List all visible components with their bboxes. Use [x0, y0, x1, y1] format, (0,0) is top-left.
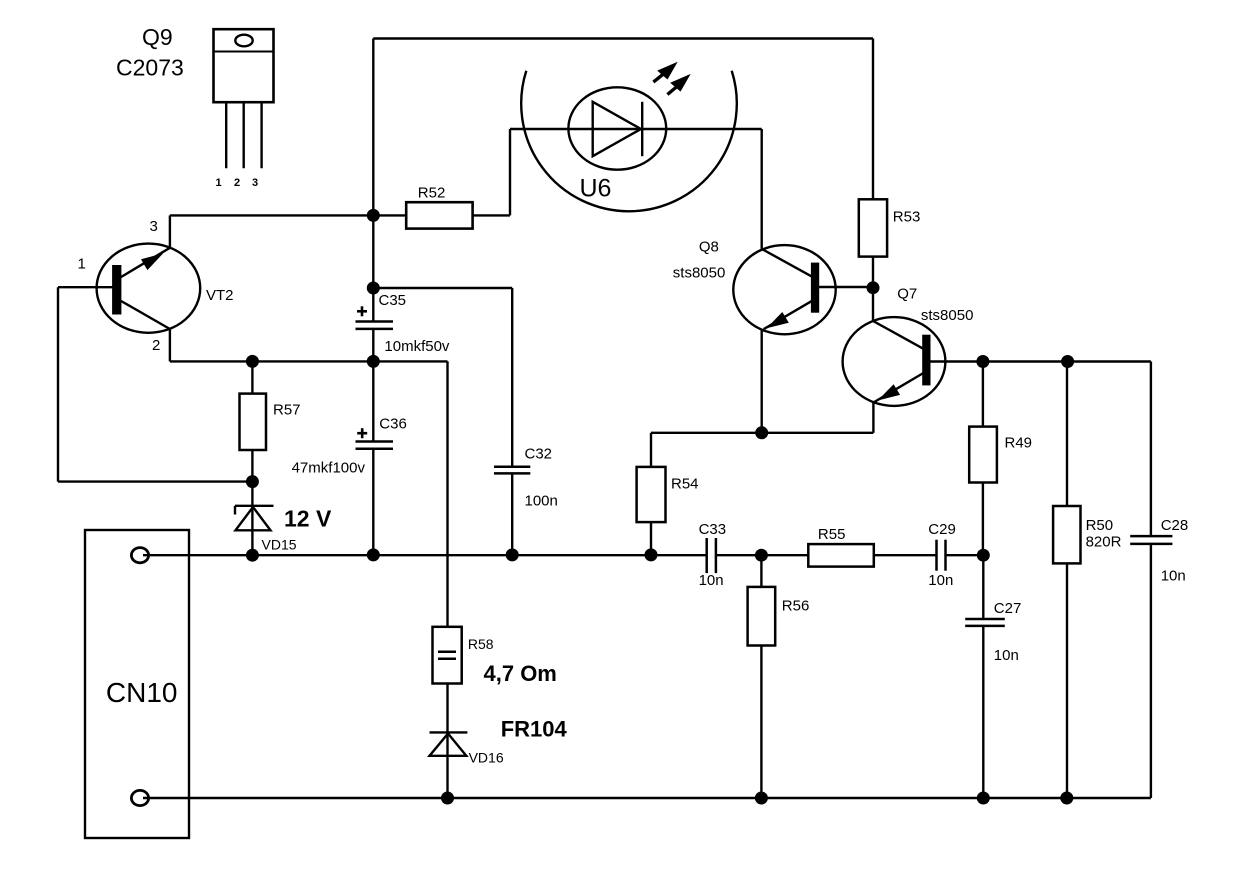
svg-text:1: 1: [78, 256, 86, 273]
junction VT2 emitter / R57 top: [246, 355, 259, 368]
svg-text:12 V: 12 V: [284, 506, 332, 532]
wire VT2 collector to R52: [170, 214, 406, 216]
svg-text:C27: C27: [994, 600, 1022, 617]
wire emitter node horizontal: [651, 432, 873, 434]
wire bottom rail: [143, 797, 1151, 799]
arrow light emission 2: [667, 74, 690, 95]
junction C35 bottom / C36 top: [367, 355, 380, 368]
svg-text:Q9: Q9: [142, 24, 173, 50]
svg-text:R52: R52: [418, 184, 446, 201]
junction R54 bottom / mid rail: [645, 548, 658, 561]
svg-text:3: 3: [252, 177, 258, 189]
svg-text:10mkf50v: 10mkf50v: [384, 338, 450, 355]
junction VD16 anode / bottom rail: [441, 792, 454, 805]
svg-text:R54: R54: [671, 476, 699, 493]
capacitor C27: [982, 555, 984, 619]
wire Q8 emitter: [761, 329, 763, 433]
wire VT2 emitter vertical: [169, 329, 171, 361]
svg-text:U6: U6: [580, 175, 612, 203]
junction Q7 base / R49 top: [976, 355, 989, 368]
junction R56 bottom / bottom rail: [755, 792, 768, 805]
resistor R57: [251, 361, 253, 393]
junction C27 bottom / bottom rail: [977, 792, 990, 805]
wire left loop vertical: [57, 287, 59, 481]
svg-text:10n: 10n: [928, 572, 953, 589]
svg-text:VT2: VT2: [206, 287, 234, 304]
svg-text:10n: 10n: [699, 572, 724, 589]
capacitor C28: [1150, 362, 1152, 537]
svg-text:C33: C33: [699, 521, 727, 538]
svg-text:1: 1: [216, 177, 222, 189]
junction R50 bottom / bottom rail: [1060, 792, 1073, 805]
svg-text:R57: R57: [273, 402, 301, 419]
wire VT2 base: [58, 286, 113, 288]
wire VT2 emitter to R58 column: [170, 360, 448, 362]
svg-text:C36: C36: [379, 416, 407, 433]
wire Q7 emitter: [872, 403, 874, 433]
junction C36 bottom / mid rail: [367, 548, 380, 561]
svg-text:3: 3: [150, 218, 158, 235]
svg-text:100n: 100n: [525, 493, 558, 510]
wire VT2 collector vertical: [169, 215, 171, 247]
wire LED cathode down to Q8 collector: [761, 129, 763, 249]
wire C35 column: [372, 39, 374, 322]
capacitor C29: [935, 540, 938, 571]
svg-text:Q8: Q8: [699, 239, 719, 256]
zener diode VD15 12V: [251, 482, 253, 556]
capacitor C33: [705, 538, 708, 573]
junction C29 / R49 / C27 node: [977, 549, 990, 562]
wire C35 top node to C32 column: [373, 287, 512, 289]
capacitor C32: [494, 466, 530, 469]
connector CN10: [85, 530, 189, 838]
svg-text:C29: C29: [928, 521, 956, 538]
svg-text:10n: 10n: [994, 647, 1019, 664]
svg-text:VD16: VD16: [469, 750, 504, 766]
transistor Q8: [733, 245, 835, 334]
svg-text:R55: R55: [818, 526, 846, 543]
svg-text:C2073: C2073: [116, 55, 184, 81]
capacitor C36 polarized: [356, 440, 394, 443]
svg-text:C35: C35: [379, 292, 407, 309]
wire R58 column from VT2 emitter line: [446, 361, 448, 626]
resistor R52: [406, 202, 472, 228]
capacitor C35 polarized: [356, 320, 394, 323]
label VT2 pins: [78, 218, 234, 354]
svg-text:Q7: Q7: [897, 286, 917, 303]
resistor R56: [760, 555, 762, 587]
diode VD16 FR104: [430, 731, 468, 733]
svg-text:CN10: CN10: [106, 677, 178, 708]
wire Q8 base: [818, 286, 873, 288]
svg-text:R58: R58: [468, 636, 494, 652]
wire mid rail: [143, 554, 707, 556]
svg-text:10n: 10n: [1161, 568, 1186, 585]
svg-text:2: 2: [234, 177, 240, 189]
resistor R54: [637, 467, 666, 522]
junction C35 top / C32 branch: [367, 282, 380, 295]
svg-text:47mkf100v: 47mkf100v: [292, 460, 366, 477]
junction C32 bottom / mid rail: [506, 548, 519, 561]
svg-text:R53: R53: [893, 209, 921, 226]
svg-text:2: 2: [152, 337, 160, 354]
wire Q7 base: [929, 360, 1151, 362]
svg-text:R50: R50: [1086, 517, 1114, 534]
svg-text:sts8050: sts8050: [673, 265, 726, 282]
transistor VT2: [97, 244, 201, 333]
transistor Q9 package TO-220: [214, 29, 274, 168]
junction Q8 base / R53 bottom: [867, 281, 880, 294]
svg-text:C28: C28: [1161, 517, 1189, 534]
opto U6 housing arc: [521, 71, 737, 212]
wire left loop horizontal: [58, 480, 252, 482]
svg-text:820R: 820R: [1086, 533, 1122, 550]
LED diode U6: [568, 87, 666, 169]
svg-text:R56: R56: [782, 598, 810, 615]
label Q9 C2073: [116, 24, 258, 189]
resistor R53: [872, 39, 874, 200]
svg-text:C32: C32: [525, 446, 553, 463]
svg-text:FR104: FR104: [501, 717, 568, 742]
wire R54 top vertical: [650, 433, 652, 467]
svg-text:VD15: VD15: [262, 537, 297, 553]
junction R57 bottom / VD15 / left loop: [246, 475, 259, 488]
svg-text:R49: R49: [1005, 435, 1033, 452]
svg-text:4,7 Om: 4,7 Om: [484, 661, 557, 686]
resistor R58 fusible 4,7 Om: [433, 627, 462, 684]
svg-text:sts8050: sts8050: [921, 307, 974, 324]
resistor R50 820R: [1066, 362, 1068, 507]
arrow light emission 1: [653, 62, 677, 82]
transistor Q7: [843, 317, 946, 406]
junction VD15 anode / mid rail: [246, 549, 259, 562]
junction Q8 emitter / Q7 emitter / R54: [755, 426, 768, 439]
junction VT2 collector / R52 / C35 node: [367, 209, 380, 222]
junction R50 top: [1061, 355, 1074, 368]
wire top rail: [373, 37, 873, 39]
resistor R55: [761, 554, 808, 556]
resistor R49: [982, 362, 984, 427]
junction C33 / R55 / R56 node: [755, 549, 768, 562]
